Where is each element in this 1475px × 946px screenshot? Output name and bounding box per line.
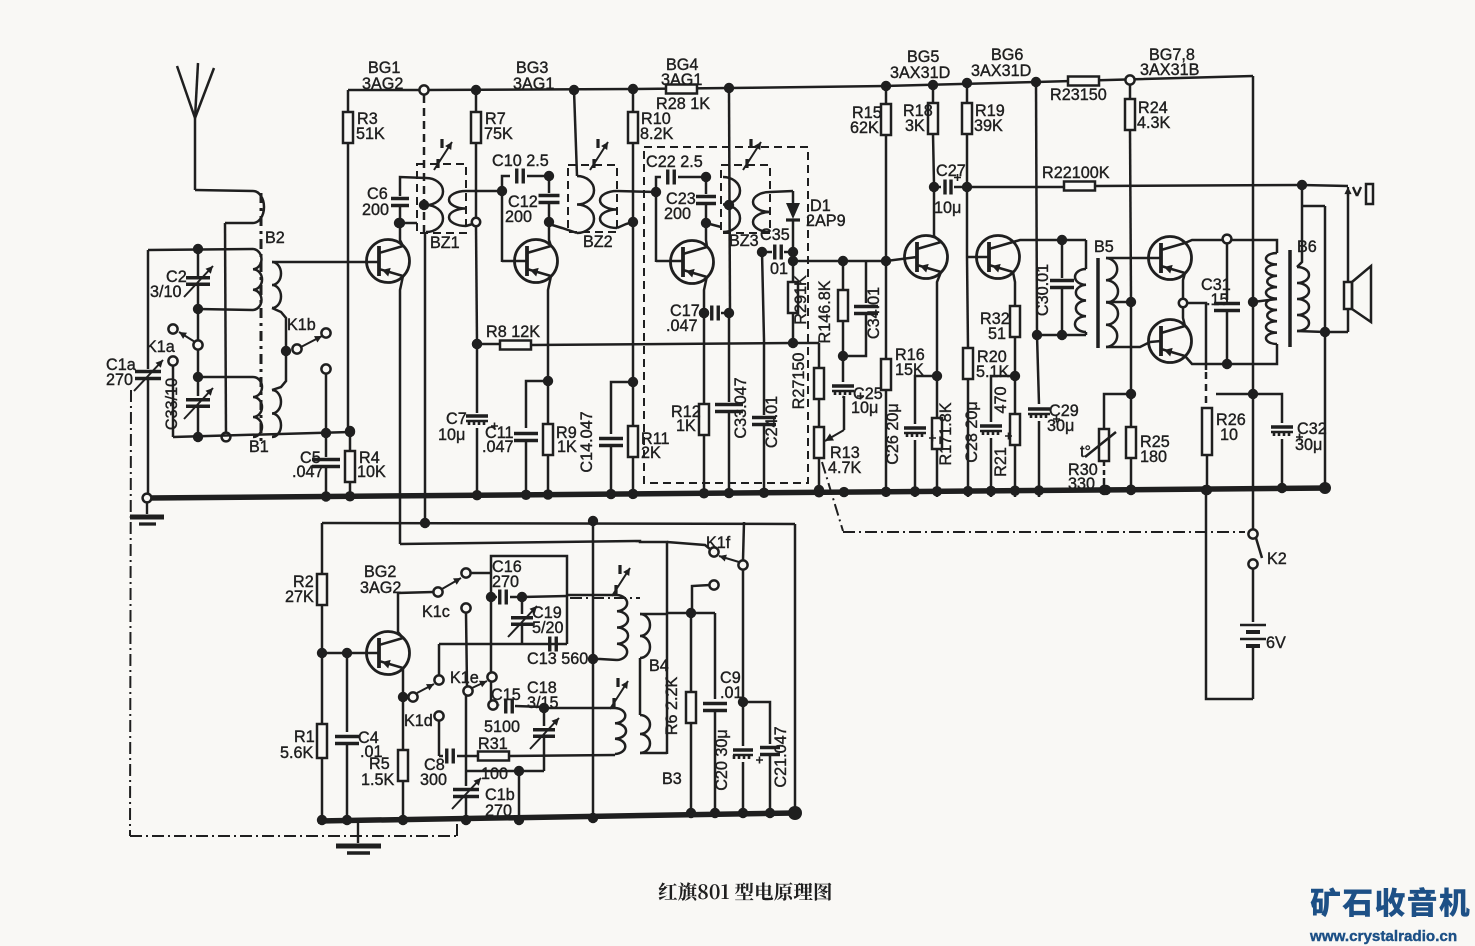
- svg-text:C30.01: C30.01: [1034, 264, 1052, 316]
- resistor R20: [963, 257, 973, 497]
- wire BZ2 sec top: [617, 187, 661, 197]
- svg-text:C24.01: C24.01: [763, 396, 781, 448]
- transformer B5 secondary: [1106, 258, 1118, 347]
- label C28 20u: [963, 401, 981, 463]
- wire B5 sec top to BG7: [1106, 257, 1150, 260]
- resistor R15: [881, 86, 891, 258]
- BZ3 primary coil: [723, 177, 740, 232]
- label K1b: [287, 316, 316, 334]
- wire BG3 base: [502, 260, 527, 263]
- wire y556: [491, 556, 567, 644]
- svg-text:100: 100: [481, 765, 508, 783]
- wire jack to speaker: [1347, 193, 1350, 282]
- resistor R4: [345, 432, 355, 497]
- wire BG4 base column: [655, 192, 658, 262]
- resistor R5: [398, 700, 408, 825]
- wire column antenna-osc: [225, 223, 226, 437]
- label B6: [1297, 238, 1317, 256]
- svg-text:K1a: K1a: [146, 338, 175, 356]
- label C34.01: [865, 287, 883, 339]
- svg-text:C26 20μ: C26 20μ: [884, 403, 902, 465]
- antenna: [177, 63, 214, 190]
- label K2: [1267, 550, 1287, 568]
- svg-text:C22 2.5: C22 2.5: [646, 153, 703, 171]
- resistor R14: [838, 261, 848, 361]
- diode D1: [786, 191, 800, 257]
- wire B6 sec top: [1297, 190, 1302, 267]
- svg-text:2AP9: 2AP9: [806, 212, 846, 230]
- wire BZ3 sec top to D1: [770, 191, 793, 192]
- label R19: [974, 102, 1005, 135]
- BZ2 trimmer arrow: [590, 139, 608, 170]
- resistor R32: [1010, 306, 1020, 381]
- svg-text:R146.8K: R146.8K: [816, 280, 834, 343]
- svg-text:R8 12K: R8 12K: [486, 323, 540, 341]
- svg-text:5/20: 5/20: [532, 619, 564, 637]
- BZ1 trimmer arrow: [434, 139, 452, 170]
- svg-text:180: 180: [1140, 448, 1167, 466]
- osc second top wire: [400, 541, 667, 754]
- label BG3: [513, 59, 554, 93]
- transistor BG3: [515, 240, 558, 283]
- svg-text:01: 01: [770, 260, 788, 278]
- wire BG2 emitter: [398, 668, 408, 702]
- label K1c: [422, 603, 450, 621]
- label C29: [1047, 402, 1079, 435]
- label C31: [1201, 276, 1231, 309]
- svg-text:3/10: 3/10: [150, 283, 182, 301]
- label R21 470: [992, 386, 1010, 476]
- svg-text:R6 2.2K: R6 2.2K: [663, 677, 681, 736]
- transistor BG7: [1149, 237, 1192, 280]
- switch K1f: [709, 522, 747, 590]
- svg-text:R22100K: R22100K: [1042, 164, 1110, 182]
- capacitor C28 electrolytic: [980, 376, 1015, 497]
- label C19: [532, 604, 564, 637]
- transformer B6 primary: [1266, 240, 1277, 344]
- label B1: [249, 438, 269, 456]
- resistor R6: [686, 613, 696, 818]
- label B3: [662, 770, 682, 788]
- capacitor C35: [757, 245, 793, 260]
- ground symbol left: [130, 503, 164, 524]
- terminal under K1b: [321, 364, 330, 433]
- wire B2 sec bottom to K1b: [272, 308, 286, 347]
- label R32: [980, 310, 1010, 343]
- svg-text:1.5K: 1.5K: [361, 771, 395, 789]
- wire BG6 emitter: [1013, 272, 1015, 306]
- wire B6 center tap: [1253, 299, 1277, 302]
- resistor R26: [1202, 408, 1212, 495]
- capacitor C17: [699, 306, 729, 321]
- ground symbol bottom: [336, 821, 381, 853]
- label B4: [649, 657, 669, 675]
- wire BZ2 feed column: [574, 90, 577, 176]
- svg-text:B2: B2: [265, 229, 285, 247]
- capacitor C10: [502, 169, 554, 192]
- svg-text:10μ: 10μ: [934, 199, 961, 217]
- rail node open BG1: [419, 85, 428, 94]
- capacitor C12: [539, 181, 560, 227]
- label C5: [292, 449, 324, 481]
- wire BG8 base: [1150, 341, 1161, 342]
- wire osc injection column: [424, 233, 427, 523]
- svg-text:R23150: R23150: [1050, 86, 1107, 104]
- resistor R3: [343, 90, 355, 436]
- wire BG5 base: [886, 257, 917, 261]
- svg-text:C28 20μ: C28 20μ: [963, 401, 981, 463]
- svg-text:R171.8K: R171.8K: [937, 402, 955, 465]
- svg-text:5100: 5100: [484, 718, 520, 736]
- svg-text:3AX31D: 3AX31D: [890, 64, 950, 82]
- svg-text:3K: 3K: [905, 117, 925, 135]
- label R23 150: [1050, 86, 1107, 104]
- label R12: [671, 403, 701, 435]
- osc box top wire: [322, 516, 795, 528]
- B5 core: [1096, 258, 1100, 348]
- wire B4sec row to R6: [667, 608, 696, 618]
- label C21 .047: [772, 726, 790, 787]
- transistor BG8: [1149, 320, 1192, 363]
- label R4: [357, 449, 386, 481]
- label R18: [903, 102, 933, 135]
- label R1: [280, 728, 315, 762]
- IF transformer BZ2 box: [568, 165, 617, 232]
- node row C33 top: [193, 313, 253, 382]
- label B2: [265, 229, 285, 247]
- battery 6V: [1240, 569, 1266, 699]
- wire BZ1 sec bottom: [466, 218, 480, 226]
- transformer B1 secondary: [272, 390, 281, 437]
- capacitor C26 electrolytic: [904, 376, 937, 497]
- resistor R17: [932, 376, 942, 497]
- wire BZ2 sec bottom: [617, 217, 638, 228]
- wire K1f third: [692, 585, 710, 613]
- resistor R12: [699, 313, 709, 497]
- wire BG4 collector feed column: [724, 92, 734, 318]
- resistor R22 and feedback line: [967, 180, 1307, 191]
- label C33.047: [732, 377, 750, 438]
- svg-text:3/15: 3/15: [527, 694, 559, 712]
- label BG4: [661, 56, 702, 89]
- wire C23 to BZ3: [706, 223, 721, 227]
- capacitor C24: [752, 340, 776, 497]
- capacitor C23: [696, 182, 716, 228]
- label C17: [666, 302, 700, 335]
- label R20: [976, 348, 1010, 381]
- label R17 1.8K: [937, 402, 955, 465]
- wire BG8 emitter: [1183, 307, 1185, 326]
- resistor R11: [628, 382, 638, 497]
- rail node R15: [881, 81, 891, 91]
- emitter junction: [1179, 299, 1187, 307]
- svg-text:6V: 6V: [1266, 634, 1286, 652]
- transformer B1 primary: [253, 377, 262, 437]
- svg-text:27K: 27K: [285, 588, 314, 606]
- wire B1 sec top to K1b: [272, 351, 286, 390]
- wire BG7 base: [1150, 257, 1161, 260]
- dash link C19: [570, 597, 640, 599]
- capacitor C15: [497, 699, 549, 714]
- label R6 2.2K: [663, 677, 681, 736]
- transformer B2 secondary: [272, 262, 281, 308]
- label C11: [482, 424, 514, 456]
- svg-text:.047: .047: [482, 438, 514, 456]
- label C14.047: [578, 411, 596, 472]
- label D1: [806, 197, 846, 230]
- svg-text:3AG2: 3AG2: [360, 579, 401, 597]
- capacitor C5: [312, 433, 340, 497]
- wire BG1 emitter into osc: [399, 521, 402, 544]
- bus dots top: [321, 485, 1136, 502]
- wire BG8 collector: [1185, 344, 1277, 369]
- capacitor C14: [599, 382, 633, 497]
- svg-text:C10 2.5: C10 2.5: [492, 152, 549, 170]
- label R22 100K: [1042, 164, 1110, 182]
- svg-text:C34.01: C34.01: [865, 287, 883, 339]
- svg-text:BZ2: BZ2: [583, 233, 613, 251]
- capacitor C32 electrolytic: [1253, 394, 1303, 493]
- wire BZ1 sec top: [466, 186, 507, 196]
- wire K1a lower to row: [172, 366, 175, 437]
- svg-text:62K: 62K: [850, 119, 879, 137]
- switch K1b: [281, 328, 331, 356]
- label R13: [828, 444, 862, 477]
- svg-text:B6: B6: [1297, 238, 1317, 256]
- transistor BG1: [367, 240, 410, 283]
- svg-text:.047: .047: [666, 317, 698, 335]
- rail node BZ2 feed: [569, 85, 579, 95]
- label R14 6.8K: [816, 280, 834, 343]
- dash gang link left: [130, 390, 457, 836]
- label C1b: [485, 786, 515, 820]
- resistor R28: [666, 85, 697, 94]
- label BZ1: [430, 234, 460, 252]
- label R9: [556, 424, 577, 456]
- wire C1b row 771: [466, 766, 544, 825]
- svg-text:10K: 10K: [357, 463, 386, 481]
- earphone jack: [1302, 184, 1373, 204]
- label R25: [1140, 433, 1170, 466]
- label R26: [1216, 411, 1246, 444]
- resistor R8 and AGC line: [472, 338, 798, 350]
- label R8 12K: [486, 323, 540, 341]
- label R2: [285, 573, 314, 606]
- svg-text:B4: B4: [649, 657, 669, 675]
- rail node open R24: [1125, 75, 1134, 84]
- title: [659, 882, 832, 901]
- watermark cn: [1311, 887, 1470, 917]
- label C9: [720, 669, 743, 702]
- transistor BG2: [367, 632, 410, 675]
- transformer B2 primary upper: [253, 191, 264, 223]
- B6 core: [1288, 250, 1292, 347]
- capacitor C16: [491, 590, 567, 605]
- transformer B3 secondary: [640, 715, 667, 753]
- svg-text:BZ1: BZ1: [430, 234, 460, 252]
- svg-text:C15: C15: [491, 686, 521, 704]
- wire BG6 base: [967, 256, 989, 259]
- wire BG1 collector: [395, 218, 405, 246]
- svg-text:3AG1: 3AG1: [513, 75, 554, 93]
- capacitor C31: [1214, 244, 1240, 364]
- B3 trimmer arrow: [610, 678, 628, 709]
- label C10 2.5: [492, 152, 549, 170]
- resistor R7: [471, 90, 481, 218]
- wire R10-R11 column: [628, 226, 638, 387]
- svg-text:K1b: K1b: [287, 316, 316, 334]
- wire BG4 collector: [706, 227, 707, 247]
- capacitor C1a variable: [134, 250, 163, 495]
- svg-text:B3: B3: [662, 770, 682, 788]
- label BZ2: [583, 233, 613, 251]
- switch K1e: [463, 672, 496, 695]
- transistor BG4: [671, 241, 714, 284]
- capacitor C4: [335, 653, 359, 825]
- wire BG1 emitter col: [400, 276, 403, 521]
- label R3: [356, 110, 385, 143]
- svg-text:R27150: R27150: [790, 353, 808, 410]
- svg-text:K2: K2: [1267, 550, 1287, 568]
- wire BZ2 primary bottom: [549, 224, 577, 233]
- resistor R10: [628, 89, 638, 218]
- wire BG7 emitter: [1183, 273, 1185, 299]
- capacitor C34: [843, 261, 878, 356]
- label K1e: [450, 669, 479, 687]
- label C8: [420, 756, 447, 789]
- svg-text:C33/10: C33/10: [163, 378, 181, 430]
- svg-text:10μ: 10μ: [851, 399, 878, 417]
- osc right edge: [667, 524, 795, 813]
- svg-text:R21: R21: [992, 447, 1010, 477]
- label R31: [478, 735, 508, 783]
- top supply rail: [348, 76, 1253, 90]
- wire speaker bottom: [1302, 206, 1348, 332]
- capacitor C20 electrolytic: [733, 702, 763, 818]
- label BG1: [362, 59, 403, 93]
- resistor R19: [962, 83, 972, 184]
- label C16: [492, 558, 522, 591]
- potentiometer R13: [814, 427, 824, 495]
- svg-text:3AG2: 3AG2: [362, 75, 403, 93]
- wire K1c fixed to column: [470, 573, 496, 602]
- resistor R9: [543, 381, 553, 497]
- wire main osc column: [588, 521, 598, 823]
- label R28 1K: [656, 95, 710, 113]
- BZ3 secondary coil: [753, 192, 770, 232]
- wire R24 to R25 column: [1126, 302, 1136, 399]
- wire node row C2 top: [148, 244, 253, 254]
- svg-text:3AX31B: 3AX31B: [1140, 61, 1199, 79]
- osc switch column: [488, 601, 497, 710]
- capacitor C33shunt: [715, 313, 743, 497]
- label R15: [850, 104, 882, 137]
- svg-text:.15: .15: [1206, 291, 1229, 309]
- rail node R18: [928, 80, 938, 90]
- svg-text:470: 470: [992, 386, 1010, 413]
- wire BG7 collector: [1185, 235, 1277, 253]
- svg-text:t°: t°: [1080, 443, 1091, 461]
- label C33/10: [163, 378, 181, 430]
- svg-text:R31: R31: [478, 735, 508, 753]
- svg-text:.047: .047: [292, 463, 324, 481]
- label R7: [484, 110, 513, 143]
- svg-text:K1d: K1d: [404, 712, 433, 730]
- capacitor C21: [743, 702, 780, 818]
- thermistor R30: [1080, 394, 1131, 495]
- label C6: [362, 185, 389, 219]
- label C23: [664, 190, 696, 223]
- wire BG3 base column: [501, 191, 504, 262]
- capacitor C11: [514, 381, 548, 497]
- label C15: [484, 686, 521, 736]
- svg-text:10μ: 10μ: [438, 426, 465, 444]
- label C25: [851, 385, 883, 417]
- label C13 560: [527, 650, 588, 668]
- svg-text:5.1K: 5.1K: [976, 363, 1010, 381]
- svg-text:5.6K: 5.6K: [280, 744, 314, 762]
- label C24.01: [763, 396, 781, 448]
- B4 trimmer arrow: [612, 565, 630, 596]
- transformer B5 primary: [1075, 240, 1086, 335]
- svg-text:1K: 1K: [676, 417, 696, 435]
- svg-text:3AX31D: 3AX31D: [971, 62, 1031, 80]
- capacitor C9: [691, 613, 727, 818]
- resistor R24: [1125, 85, 1135, 299]
- wire B2 tap jog: [225, 222, 253, 225]
- wire rail to B5 return: [1031, 77, 1042, 340]
- svg-text:330: 330: [1068, 475, 1095, 493]
- label R24: [1137, 99, 1171, 132]
- label C22 2.5: [646, 153, 703, 171]
- svg-text:200: 200: [664, 205, 691, 223]
- switch K1a: [168, 313, 202, 366]
- label K1d: [404, 712, 433, 730]
- svg-text:C21.047: C21.047: [772, 726, 790, 787]
- IF transformer BZ3 box: [721, 165, 770, 233]
- label C7: [438, 410, 467, 444]
- capacitor C19 trimmer: [508, 601, 537, 644]
- BZ2 primary coil: [577, 176, 594, 233]
- svg-text:10: 10: [1220, 426, 1238, 444]
- wire K1d third to C13 row: [439, 644, 567, 676]
- rail node BG4: [724, 83, 734, 93]
- label C1a: [106, 356, 136, 389]
- svg-text:75K: 75K: [484, 125, 513, 143]
- label R5: [361, 755, 395, 789]
- label C26 20u: [884, 403, 902, 465]
- label R16: [895, 346, 925, 379]
- capacitor C29 electrolytic: [1028, 335, 1060, 497]
- label R30: [1068, 461, 1098, 493]
- label R29 1K: [792, 275, 810, 325]
- label C30.01: [1034, 264, 1052, 316]
- resistor R29: [788, 252, 798, 343]
- wire B5 sec tap: [1106, 297, 1136, 307]
- label R11: [641, 430, 670, 462]
- label B5: [1094, 238, 1114, 256]
- wire AGC to R27: [793, 342, 819, 345]
- label BZ3: [729, 232, 759, 250]
- dashed feed BZ1: [423, 95, 426, 233]
- label K1a: [146, 338, 175, 356]
- label BG7 8: [1140, 46, 1199, 79]
- wire audio tap: [793, 256, 891, 266]
- capacitor C18 trimmer: [530, 712, 559, 771]
- wire antenna to B2: [195, 190, 253, 191]
- wire K1c third down: [466, 613, 467, 686]
- svg-text:270: 270: [106, 371, 133, 389]
